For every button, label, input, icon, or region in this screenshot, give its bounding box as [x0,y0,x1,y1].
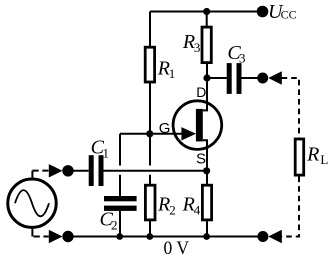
terminal dot output top [257,73,268,84]
svg-text:S: S [196,150,206,167]
wire source top stub [31,171,33,178]
resistor R2 [145,185,155,220]
svg-text:2: 2 [169,202,176,217]
node junction drain / C3 [203,74,210,81]
resistor R1 [145,47,154,82]
svg-text:CC: CC [281,8,297,22]
wire C3 right lead [242,77,259,79]
svg-text:1: 1 [103,145,110,160]
svg-text:D: D [196,84,206,100]
resistor RL [295,139,304,175]
wire C3 left lead [207,77,227,79]
resistor R4 [202,185,211,220]
node junction source S [203,167,210,174]
terminal arrow output top [268,71,282,84]
terminal dot UCC [257,6,269,18]
node junction R2 ground [146,233,153,240]
wire R2 top lead (break at C1 wire crossing) [149,134,151,185]
terminal dot input bottom [62,231,73,242]
capacitor C3 [227,63,242,94]
svg-text:2: 2 [111,217,118,232]
wire C1 to source node [104,170,207,172]
svg-text:4: 4 [194,202,201,217]
wire R1 top lead [149,12,151,48]
wire dashed RL bottom to output [282,177,299,237]
svg-text:3: 3 [194,40,201,55]
svg-text:G: G [159,120,171,137]
wire R4 bottom lead [206,220,208,237]
wire drain lead (R3 bottom to transistor) [203,63,207,111]
capacitor C1 [89,155,104,186]
wire dashed input bottom [34,236,49,238]
signal source sine wave [15,190,49,216]
wire gate [120,133,184,135]
wire bottom rail [68,236,263,238]
wire R2 bottom lead [149,220,151,237]
wire input to C1 [68,170,89,172]
node junction top rail R3 [203,8,210,15]
capacitor C2 [104,196,137,211]
wire dashed output top to RL [282,78,299,138]
svg-text:0 V: 0 V [164,238,190,259]
svg-text:R: R [306,143,319,165]
signal source circle [8,179,56,227]
svg-text:R: R [157,194,170,216]
wire R3 top lead [206,12,208,28]
transistor channel bar [196,109,203,141]
node junction R4 ground [203,233,210,240]
wire source lead (transistor to R4) [203,140,207,185]
node junction C2 ground [116,233,123,240]
svg-text:1: 1 [169,66,176,81]
svg-text:3: 3 [239,51,246,66]
wire C2 bottom lead [119,211,121,237]
terminal arrow output bottom [268,230,282,243]
wire C2 top lead (break at C1 wire crossing) [119,134,121,196]
transistor gate arrow [181,127,196,140]
node junction gate [146,130,153,137]
wire R1 bottom lead to gate node [149,82,151,134]
wire dashed input top [32,170,48,172]
transistor V (JFET) circle [173,101,222,150]
terminal arrow input bottom [49,230,63,243]
terminal dot output bottom [257,231,268,242]
resistor R3 [202,27,211,63]
terminal dot input top [62,165,73,176]
terminal arrow input top [49,164,63,177]
svg-text:L: L [320,152,328,167]
wire top rail [150,11,263,13]
wire source bottom stub [31,228,33,236]
